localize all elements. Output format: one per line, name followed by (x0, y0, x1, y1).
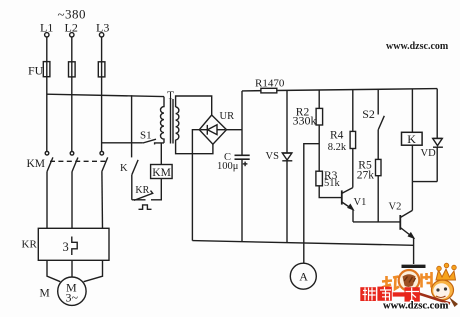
motor M circle (58, 277, 86, 305)
watermark face (399, 270, 420, 291)
contact KR left wire (132, 199, 146, 201)
svg-text:V2: V2 (389, 202, 402, 213)
svg-text:UR: UR (220, 111, 235, 122)
svg-text:V1: V1 (354, 197, 367, 208)
wire K to KR contact (131, 175, 133, 200)
thermal relay KR box (38, 228, 109, 260)
transformer T primary winding (161, 97, 165, 143)
contact KR heater (139, 205, 152, 209)
svg-text:VS: VS (266, 151, 280, 162)
orange glyph zhao (382, 276, 399, 290)
resistor R1 body (261, 88, 277, 93)
svg-text:K: K (120, 163, 128, 174)
relay K box wire (411, 89, 413, 132)
wire S2 branch top (377, 89, 379, 114)
resistor R5 body (376, 159, 382, 175)
wire KR to motor 3 (84, 260, 103, 281)
wire bridge plus to C branch (227, 129, 243, 131)
wire L2 vertical (71, 37, 73, 151)
rectifier UR bridge (199, 115, 226, 144)
wire bridge minus down (192, 130, 199, 241)
transistor V1 (341, 190, 343, 204)
wire S2 to R5 (377, 130, 379, 160)
wire C to bottom rail (241, 159, 243, 242)
wire R5 to V2 base link (377, 176, 379, 222)
diode VS (282, 152, 292, 154)
wire L3 to S1 (102, 142, 143, 144)
wire KM2 to KR box (71, 172, 73, 228)
svg-text:51k: 51k (324, 178, 341, 189)
svg-text:R4: R4 (330, 130, 344, 142)
switch S2 blade (378, 116, 384, 130)
ammeter A (290, 263, 316, 289)
orange glyph pian (422, 272, 432, 288)
wire KM3 to KR box (101, 172, 104, 228)
wire L3 vertical (101, 37, 103, 151)
mascot head (432, 280, 454, 300)
contact K blade (132, 160, 138, 175)
svg-text:3~: 3~ (66, 290, 79, 304)
svg-text:KM: KM (27, 158, 46, 170)
watermark logo (360, 263, 458, 311)
contact KR blade (134, 191, 153, 201)
contactor KM contact 2 (70, 152, 74, 156)
wire C branch vertical (241, 91, 243, 155)
transformer T secondary winding (176, 107, 179, 140)
wire KM1 to KR box (46, 172, 48, 228)
transformer T core (170, 99, 172, 144)
contactor KM contact 3 (100, 151, 104, 155)
contactor KM linkage dashed (50, 160, 106, 162)
red text wei ku yi xia (360, 287, 420, 302)
fuse FU on L2 (69, 62, 76, 77)
svg-text:27k: 27k (357, 170, 375, 182)
svg-text:S1: S1 (140, 130, 152, 142)
switch S1 fixed contact (155, 143, 164, 145)
ground (402, 265, 426, 268)
wire KR to motor 1 (47, 260, 60, 281)
thermal relay KR heater symbol (72, 237, 77, 256)
svg-text:FU: FU (28, 64, 44, 78)
wire KM coil bottom (151, 179, 161, 200)
svg-text:~380: ~380 (58, 7, 87, 22)
switch S1 blade (143, 139, 156, 143)
wire V1 emitter to V2 base (353, 221, 400, 223)
diode VD wire top (436, 89, 438, 139)
mascot pen (449, 297, 458, 307)
resistor R3 body (316, 171, 323, 186)
wire control bus to transformer primary top (47, 94, 164, 96)
transistor V2 (399, 215, 401, 230)
svg-text:VD: VD (421, 148, 437, 159)
wire K VD link (412, 181, 437, 183)
wire V1 emitter down (352, 210, 354, 222)
wire L1 vertical (46, 37, 48, 151)
wire top rail (242, 89, 437, 91)
resistor R4 body (350, 131, 356, 148)
diode VD (433, 137, 443, 139)
wire secondary bottom to bridge (176, 140, 213, 154)
wire R4 to V1 collector (352, 149, 354, 188)
svg-text:www.dzsc.com: www.dzsc.com (383, 301, 449, 312)
wire VS branch bottom (286, 161, 288, 243)
resistor R2 body (316, 108, 323, 125)
svg-text:KR: KR (22, 239, 38, 251)
fuse FU on L1 (43, 62, 50, 77)
wire R4 branch top (352, 90, 354, 132)
contactor KM contact 1 (45, 151, 49, 155)
wire K box bottom (411, 145, 413, 181)
svg-text:3: 3 (63, 240, 69, 254)
svg-text:KM: KM (152, 167, 171, 179)
wire bus drop to K contact (131, 95, 133, 157)
svg-text:330k: 330k (293, 113, 317, 127)
wire VD bottom (436, 147, 438, 181)
svg-text:A: A (299, 270, 308, 284)
svg-text:8.2k: 8.2k (328, 142, 347, 153)
svg-text:100μ: 100μ (217, 161, 239, 172)
wire V2 collector (411, 182, 413, 211)
rectifier UR inner diode (201, 129, 208, 131)
relay K box (402, 132, 423, 145)
wire secondary top to bridge (176, 96, 212, 115)
svg-text:M: M (40, 287, 50, 299)
wire junction jog to ammeter (304, 144, 319, 243)
svg-text:KR: KR (135, 185, 149, 196)
svg-text:K: K (407, 132, 416, 146)
wire KR to motor 2 (71, 260, 73, 277)
relay coil KM box (151, 165, 173, 179)
fuse FU on L3 (98, 62, 105, 77)
svg-text:S2: S2 (362, 107, 375, 121)
wire primary bottom to KM coil (160, 143, 162, 165)
wire R2 branch top (318, 90, 320, 108)
svg-text:www.dzsc.com: www.dzsc.com (386, 41, 449, 52)
ammeter A stem (303, 243, 305, 263)
wire V2 emitter to ground (413, 238, 415, 264)
mascot crown (436, 269, 456, 280)
wire R2 to R3 (318, 125, 320, 171)
wire VS branch top (286, 90, 288, 153)
wire bottom rail (192, 241, 413, 246)
capacitor C plus sign (243, 163, 248, 165)
wire R3 to V1 base (319, 186, 342, 198)
capacitor C plates (235, 154, 250, 156)
